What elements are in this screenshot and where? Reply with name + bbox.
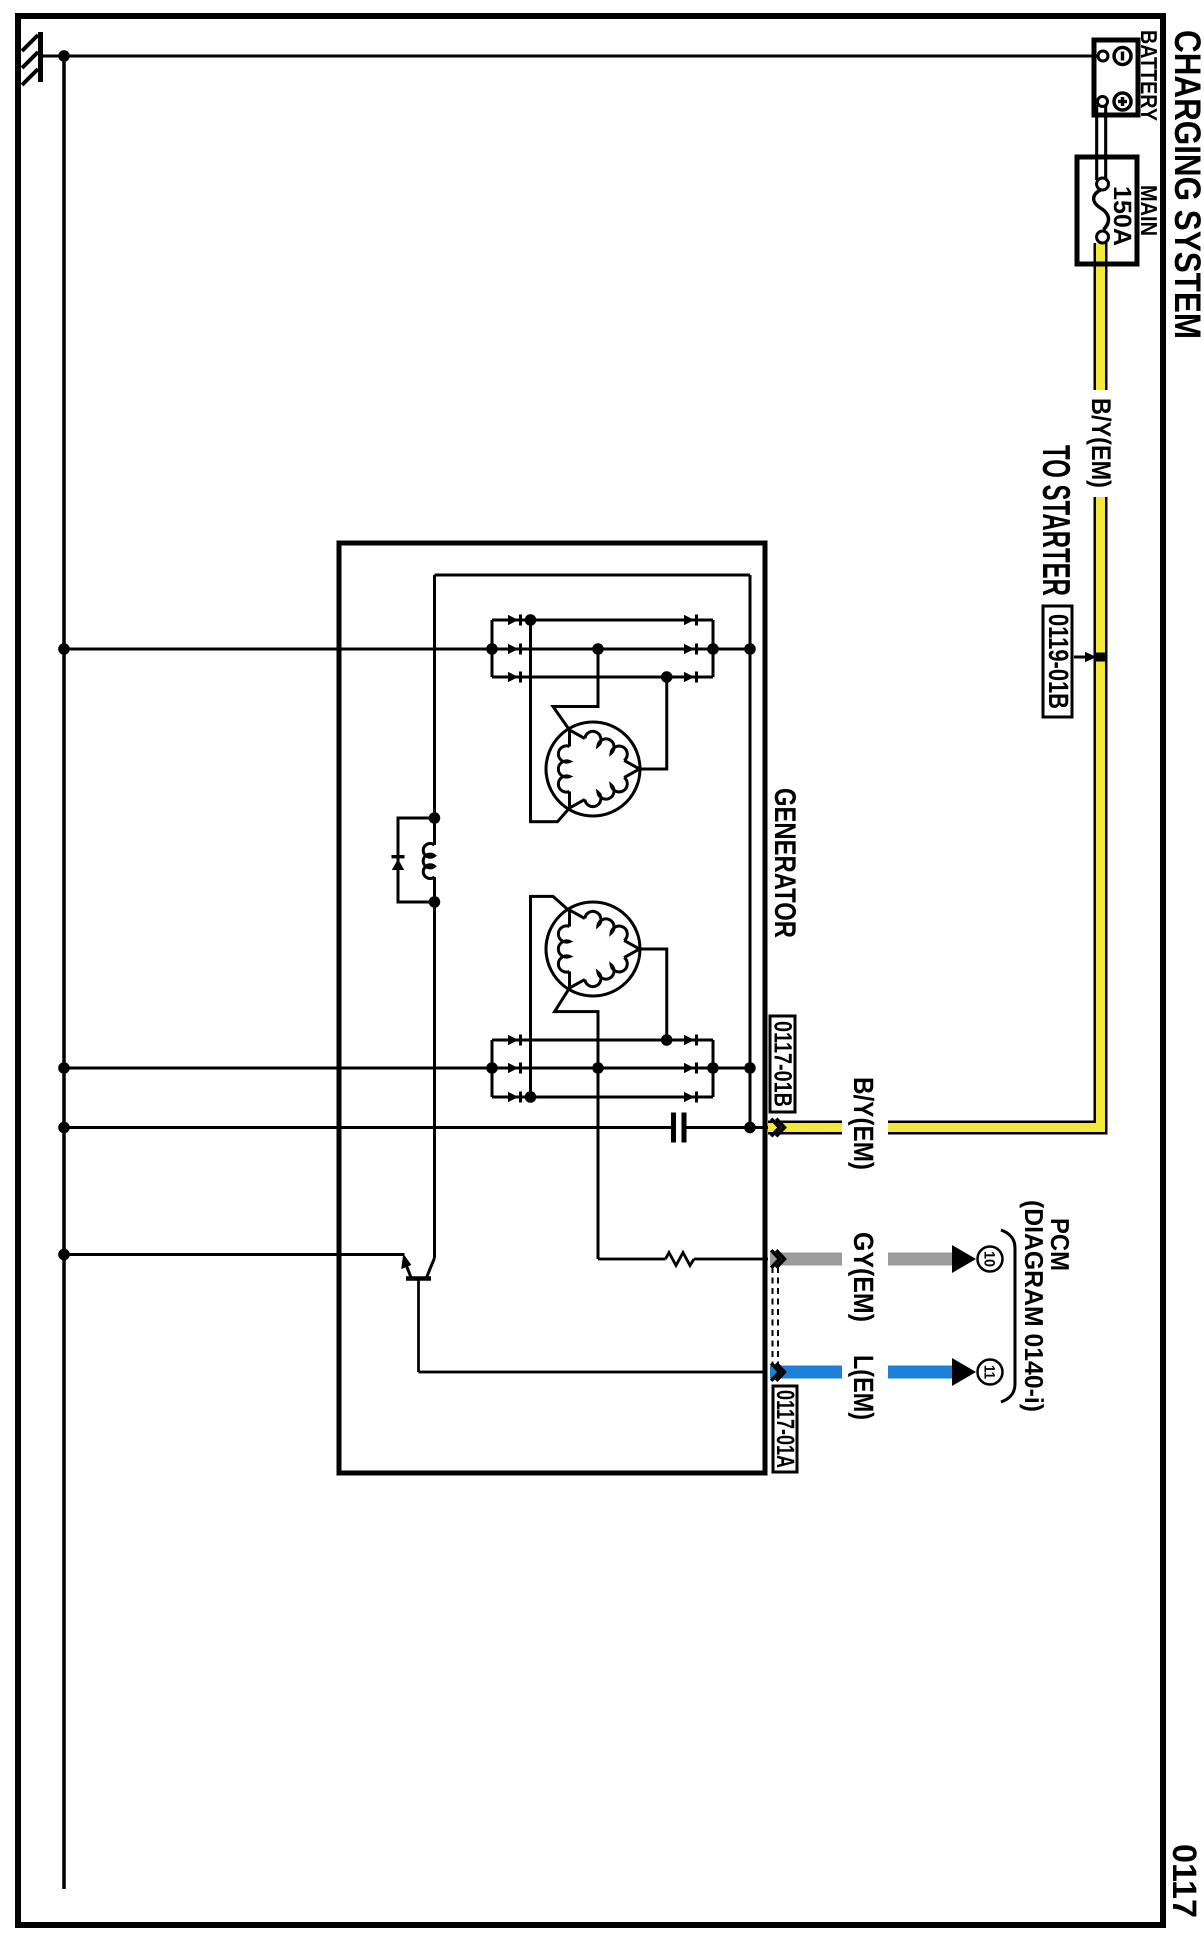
node field coil right	[429, 896, 441, 908]
diode A6	[508, 672, 522, 683]
svg-text:TO STARTER: TO STARTER	[1034, 445, 1077, 596]
diode B2	[684, 1063, 698, 1074]
svg-text:MAIN: MAIN	[1136, 185, 1162, 236]
diode B6	[508, 1092, 522, 1103]
svg-text:GY(EM): GY(EM)	[848, 1232, 879, 1322]
pin 10 circle	[978, 1247, 1003, 1272]
dashed connector link	[773, 1267, 779, 1366]
diode B5	[508, 1063, 522, 1074]
diode A5	[508, 644, 522, 655]
wire L(EM) blue from generator connector 0117-01A to PCM pin 11	[770, 1366, 952, 1379]
node field coil left	[429, 812, 441, 824]
zener diode (field suppression)	[392, 855, 405, 870]
node tap TO STARTER	[1096, 653, 1105, 662]
diode A2	[684, 644, 698, 655]
svg-text:10: 10	[981, 1251, 998, 1267]
wire phase tap A apex	[640, 677, 667, 769]
connector ref 0119-01B	[1043, 606, 1074, 717]
wire phase tap A mid	[553, 649, 598, 730]
wire zener parallel branch	[398, 818, 435, 902]
wire transistor base to L connector	[419, 1281, 768, 1373]
diode A4	[508, 615, 522, 626]
pin 11 circle	[978, 1360, 1003, 1385]
connector ref 0117-01A	[771, 1386, 799, 1472]
wire B+ battery to fuse (double line)	[1097, 105, 1106, 180]
wire phase tap B low	[531, 896, 570, 1097]
diode A1	[684, 615, 698, 626]
svg-text:GENERATOR: GENERATOR	[768, 788, 801, 938]
diode B1	[684, 1035, 698, 1046]
fuse MAIN 150A	[1077, 157, 1137, 264]
wire phase sense to connector	[598, 1258, 768, 1261]
wire battery negative to ground bus	[64, 55, 1098, 58]
transistor Q (regulator output)	[401, 1254, 434, 1279]
node B+ rail / output	[744, 1122, 756, 1134]
svg-text:11: 11	[981, 1365, 998, 1379]
connector chevrons L	[771, 1363, 784, 1381]
battery	[1094, 40, 1138, 115]
stator winding B	[546, 902, 640, 996]
connector chevrons GY	[771, 1250, 784, 1268]
svg-text:PCM: PCM	[1045, 1218, 1075, 1271]
resistor phase sense	[666, 1253, 695, 1266]
diode B4	[508, 1035, 522, 1046]
diode B3	[684, 1092, 698, 1103]
connector ref 0117-01B	[769, 1016, 797, 1112]
wire internal left riser	[435, 574, 751, 577]
wire bridge A center rail to B+ rail and ground bus	[64, 648, 750, 651]
rectifier bridge B rails	[492, 1040, 713, 1097]
svg-text:0117: 0117	[1165, 1844, 1203, 1918]
svg-text:B/Y(EM): B/Y(EM)	[1086, 398, 1116, 488]
pin 11 arrow	[952, 1358, 976, 1386]
stator winding A	[546, 722, 640, 816]
diode A3	[684, 672, 698, 683]
svg-text:CHARGING SYSTEM: CHARGING SYSTEM	[1167, 30, 1204, 339]
wire phase tap B mid to resistor line	[555, 988, 598, 1259]
svg-text:0117-01B: 0117-01B	[769, 1021, 797, 1107]
node B taps	[486, 1034, 756, 1103]
wire B/Y(EM) yellow from MAIN fuse to generator connector 0117-01B	[768, 243, 1101, 1128]
wire transistor emitter to ground bus	[64, 1253, 405, 1256]
PCM bracket	[1001, 1230, 1015, 1402]
wire GY(EM) gray from generator connector to PCM pin 10	[770, 1253, 952, 1266]
wire ground bus	[62, 56, 66, 1889]
wire phase tap A low	[531, 620, 570, 822]
svg-text:0117-01A: 0117-01A	[771, 1390, 799, 1468]
rectifier bridge A rails	[492, 620, 713, 677]
wire internal B+ rail	[749, 575, 752, 1128]
svg-text:(DIAGRAM 0140-i): (DIAGRAM 0140-i)	[1019, 1200, 1049, 1412]
wire field/regulator rail	[433, 575, 436, 1258]
svg-text:BATTERY: BATTERY	[1136, 30, 1162, 121]
svg-text:L(EM): L(EM)	[848, 1355, 879, 1420]
wire B+ output through capacitor node	[64, 1126, 768, 1129]
junction node bus/battery/ground	[58, 50, 70, 62]
inductor field coil	[423, 843, 434, 878]
wire bridge B center rail to B+ rail and ground bus	[64, 1067, 750, 1070]
generator box	[339, 543, 765, 1473]
ground chassis symbol	[22, 32, 64, 85]
svg-text:B/Y(EM): B/Y(EM)	[848, 1077, 879, 1170]
capacitor (noise suppression)	[671, 1113, 687, 1143]
node bus branches	[58, 643, 70, 1260]
svg-text:150A: 150A	[1108, 186, 1136, 246]
node A taps	[486, 614, 756, 683]
arrow to starter tap	[1074, 652, 1097, 662]
wire phase tap B apex	[640, 949, 667, 1040]
pin 10 arrow	[952, 1245, 976, 1273]
svg-text:0119-01B: 0119-01B	[1043, 614, 1074, 709]
connector chevrons B/Y	[771, 1119, 784, 1137]
